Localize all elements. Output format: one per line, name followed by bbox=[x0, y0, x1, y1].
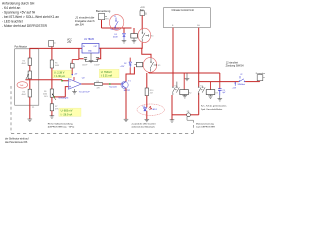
svg-text:K2: K2 bbox=[175, 85, 177, 87]
svg-text:der Stellmotor wirkt auf: der Stellmotor wirkt auf bbox=[5, 138, 29, 141]
measurement box U 2.38V bbox=[53, 70, 72, 78]
svg-text:+5V: +5V bbox=[67, 42, 72, 44]
svg-text:TLC271CP: TLC271CP bbox=[79, 92, 90, 94]
measurement box U 683mV bbox=[59, 108, 81, 116]
contact K4 bbox=[142, 30, 149, 42]
capacitor C1 bbox=[79, 48, 84, 59]
supply terminal X1 above divider bbox=[49, 41, 54, 47]
svg-text:+12V: +12V bbox=[120, 66, 125, 68]
svg-text:- Motor dreht auf DEFROSTER: - Motor dreht auf DEFROSTER bbox=[2, 24, 48, 28]
svg-text:I: -26.9 nA: I: -26.9 nA bbox=[61, 113, 73, 116]
node green bbox=[61, 80, 62, 81]
svg-text:- K4 zieht an: - K4 zieht an bbox=[2, 6, 20, 10]
svg-text:SW-Batt: SW-Batt bbox=[238, 83, 246, 86]
svg-text:LED1: LED1 bbox=[152, 109, 158, 111]
svg-text:Bemerkung: Bemerkung bbox=[96, 9, 111, 13]
svg-text:Zündung SW/SH: Zündung SW/SH bbox=[226, 64, 244, 67]
svg-text:Climate Control Unit: Climate Control Unit bbox=[172, 9, 195, 12]
switch J1 (blue) bbox=[115, 18, 118, 28]
wire K1 output down bbox=[148, 72, 150, 73]
mechanical link from motor bbox=[187, 117, 193, 121]
ground below K4 coil bbox=[132, 38, 137, 43]
wire SH1 down bbox=[101, 20, 103, 28]
pot R6 bbox=[50, 89, 53, 97]
+12V rail A bbox=[149, 72, 220, 74]
diode D2 bbox=[129, 58, 131, 62]
wiper wire TxH bbox=[26, 79, 62, 81]
ground below D1 bbox=[122, 40, 127, 43]
svg-text:R6 für Sollwerteinstellung: R6 für Sollwerteinstellung bbox=[48, 122, 74, 125]
resistor R4 bbox=[30, 48, 39, 58]
rail A to rail C link bbox=[219, 73, 221, 82]
svg-text:K3: K3 bbox=[200, 85, 202, 87]
svg-text:U: 683 mV: U: 683 mV bbox=[61, 110, 73, 113]
svg-text:K3: K3 bbox=[216, 93, 218, 95]
wire +12V down to K4 contact bbox=[141, 16, 143, 30]
ground pot box bbox=[28, 119, 33, 121]
svg-text:VCC: VCC bbox=[67, 40, 72, 42]
svg-text:U: 763mV: U: 763mV bbox=[101, 71, 112, 74]
svg-text:Transisth: Transisth bbox=[109, 86, 117, 89]
svg-text:während des Motorlaufs: während des Motorlaufs bbox=[132, 126, 156, 129]
svg-text:SH1: SH1 bbox=[105, 18, 109, 20]
svg-text:- LED leuchtet: - LED leuchtet bbox=[2, 20, 23, 24]
relay K3 contacts bbox=[198, 87, 205, 95]
ground divider bbox=[50, 116, 55, 118]
svg-text:TxH: TxH bbox=[20, 85, 24, 87]
svg-text:4k7: 4k7 bbox=[150, 93, 153, 95]
dashed mechanical boundary bbox=[11, 86, 193, 133]
svg-text:100nF: 100nF bbox=[94, 65, 100, 67]
svg-text:100nF: 100nF bbox=[82, 65, 88, 67]
highlight ellipse J1 bbox=[109, 15, 123, 31]
capacitor C2 bbox=[98, 48, 101, 59]
opamp input wires bbox=[62, 80, 69, 81]
resistor R5 bbox=[50, 60, 53, 68]
svg-text:Motoransteuerung: Motoransteuerung bbox=[196, 122, 215, 125]
relay coil K3 bbox=[210, 82, 212, 90]
highlight ellipse K1 bbox=[143, 58, 157, 73]
svg-text:(DEFROSTER bzw. ~GFC): (DEFROSTER bzw. ~GFC) bbox=[48, 127, 75, 129]
wire climate SH down bbox=[198, 28, 200, 87]
svg-text:4k64: 4k64 bbox=[55, 65, 59, 67]
relay coil K2 bbox=[183, 73, 185, 90]
highlight ellipse TxH bbox=[17, 82, 28, 88]
svg-text:K2: K2 bbox=[189, 93, 191, 95]
svg-text:zusätzliche LED leuchtet: zusätzliche LED leuchtet bbox=[132, 122, 156, 125]
svg-text:V1: V1 bbox=[145, 14, 147, 16]
wire +12V rail at y48 (right of IC) bbox=[99, 47, 142, 49]
svg-text:R9: R9 bbox=[97, 81, 99, 83]
svg-text:Anforderung durch SH: Anforderung durch SH bbox=[2, 2, 35, 6]
emitter wire down to ground bbox=[125, 88, 127, 119]
svg-text:die SH: die SH bbox=[75, 23, 85, 27]
relay coil K1 bbox=[136, 62, 142, 66]
wire +5V rail at y48 (left of IC) bbox=[39, 47, 82, 49]
resistor R3 lower bbox=[29, 79, 31, 89]
transistor T1 bbox=[121, 81, 128, 88]
svg-text:50%: 50% bbox=[44, 96, 48, 98]
wire K2 contact to motor and ground bbox=[171, 95, 173, 120]
collector wire up to K1 coil bbox=[126, 67, 134, 82]
svg-text:BD237: BD237 bbox=[124, 90, 131, 92]
wire J1 row bbox=[102, 27, 132, 29]
svg-text:2pol. Umschalt-Relais: 2pol. Umschalt-Relais bbox=[201, 108, 223, 111]
svg-text:4µ7: 4µ7 bbox=[222, 92, 225, 94]
measurement box U 763mV bbox=[99, 69, 119, 77]
cap C4 near opamp bbox=[70, 64, 74, 69]
pot RV1 bbox=[29, 65, 31, 71]
svg-text:das Potentiometer R6: das Potentiometer R6 bbox=[5, 141, 28, 144]
node Transist bbox=[109, 83, 110, 84]
svg-text:- Spannung +5V auf fH: - Spannung +5V auf fH bbox=[2, 11, 36, 15]
capacitor C3 (blue electrolytic) bbox=[219, 82, 221, 89]
connector SH1 box bbox=[99, 14, 105, 20]
svg-text:4k64: 4k64 bbox=[22, 94, 26, 96]
note J1 simuliert bbox=[75, 16, 95, 27]
output wire to R9 bbox=[81, 83, 94, 85]
svg-text:nach DEFROSTER: nach DEFROSTER bbox=[196, 127, 215, 129]
svg-text:I: 3.31 mA: I: 3.31 mA bbox=[101, 75, 113, 78]
wire climate B down bbox=[172, 28, 174, 87]
+12V arrow on rail C bbox=[234, 82, 236, 84]
svg-text:I: 1.30 µA: I: 1.30 µA bbox=[54, 75, 65, 78]
wire K4 to +5V rail bbox=[141, 43, 144, 49]
svg-text:D2: D2 bbox=[124, 63, 126, 65]
relay coil K4 bbox=[133, 28, 135, 34]
contact K1 bbox=[150, 58, 156, 72]
resistor R7 bbox=[51, 97, 53, 104]
highlight ellipse LED bbox=[137, 104, 164, 115]
ground opamp bbox=[72, 89, 77, 94]
opamp power pin bbox=[73, 77, 75, 81]
svg-text:U1 78L05: U1 78L05 bbox=[84, 39, 95, 41]
svg-text:Pot Aktuator: Pot Aktuator bbox=[15, 46, 28, 49]
svg-text:K2 + K3 als gemeinsames: K2 + K3 als gemeinsames bbox=[201, 106, 227, 108]
node SenDwgTb bbox=[54, 96, 55, 97]
divider chain bbox=[51, 47, 53, 61]
svg-text:OUT: OUT bbox=[94, 46, 98, 48]
climate control unit box bbox=[164, 8, 211, 28]
ground stub on rail A bbox=[185, 73, 190, 81]
svg-text:4k64: 4k64 bbox=[22, 63, 26, 65]
annotation text block top-left bbox=[2, 2, 59, 29]
svg-text:P1: P1 bbox=[32, 107, 34, 109]
relay K2 contacts bbox=[172, 82, 179, 95]
resistor R9 bbox=[94, 83, 102, 86]
ground IC middle bbox=[86, 53, 98, 63]
svg-text:- bei IST-Wert > SOLL-Wert zie: - bei IST-Wert > SOLL-Wert zieht K1 an bbox=[2, 15, 59, 19]
diode D1 bbox=[123, 28, 125, 33]
wire rail to K1 bbox=[142, 48, 151, 58]
resistor R10 bbox=[146, 73, 148, 88]
highlight ellipse K4 bbox=[138, 28, 151, 42]
svg-text:SenDwgTb: SenDwgTb bbox=[58, 98, 69, 100]
switch J2 (blue) bbox=[239, 76, 245, 82]
